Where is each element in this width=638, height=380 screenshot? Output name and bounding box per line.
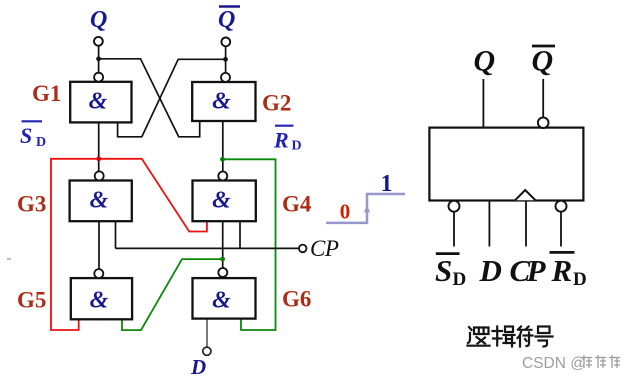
char hao	[536, 327, 553, 347]
svg-text:1: 1	[381, 171, 393, 197]
svg-text:Q: Q	[218, 7, 235, 33]
svg-text:Q: Q	[474, 45, 496, 78]
bubble G3 output	[95, 171, 104, 180]
bubble G5 output	[94, 269, 103, 278]
svg-text:&: &	[212, 89, 231, 115]
junction red on S-bar net	[96, 156, 101, 161]
svg-text:R: R	[273, 127, 289, 152]
label Q-bar (symbol)	[532, 45, 556, 78]
bubble G1 output	[94, 73, 103, 82]
svg-text:CSDN @: CSDN @	[522, 355, 586, 372]
junction green on R-bar net	[220, 157, 225, 162]
wire Q vertical	[98, 46, 100, 73]
wire R-bar net: G2 bottom to G4 bubble	[222, 121, 224, 172]
terminal Q	[94, 37, 103, 46]
terminal D	[203, 347, 211, 355]
wire cross-couple Q to G2 input	[99, 59, 200, 137]
svg-text:&: &	[212, 288, 231, 314]
svg-text:&: &	[212, 188, 231, 214]
node Q label	[90, 7, 107, 33]
svg-text:CP: CP	[310, 236, 339, 261]
nand gate G1 box	[70, 82, 131, 123]
char ji	[493, 327, 515, 347]
wire G4 middle leg down to G6 bubble	[222, 221, 224, 268]
char luo	[468, 327, 490, 346]
pin Q	[482, 79, 484, 128]
bubble G4 output	[218, 172, 227, 181]
label S_D bar (blue)	[20, 121, 46, 150]
label R_D bar (symbol)	[550, 252, 587, 290]
terminal CP	[299, 245, 307, 253]
svg-text:D: D	[453, 269, 467, 290]
junction on Q-bar line	[223, 57, 228, 62]
svg-text:Q: Q	[532, 45, 554, 78]
svg-text:D: D	[573, 269, 587, 290]
svg-text:&: &	[90, 288, 109, 314]
watermark CJK name strokes	[581, 355, 620, 368]
pin D	[488, 201, 490, 247]
svg-text:G3: G3	[17, 192, 46, 217]
pin CP with edge triangle	[525, 201, 527, 247]
wire G3 right leg to CP rail	[115, 221, 117, 248]
wire cross-couple Q-bar to G1 input	[118, 59, 226, 137]
wire red: S-bar to G5 input (left loop)	[51, 159, 99, 330]
nand gate G3 box	[70, 181, 132, 222]
waveform CP edge	[326, 194, 405, 223]
svg-text:Q: Q	[90, 7, 107, 33]
wire D input to G6	[206, 319, 208, 347]
svg-text:0: 0	[340, 200, 351, 224]
svg-text:S: S	[435, 253, 452, 288]
svg-text:D: D	[36, 135, 46, 150]
pin R_D bar with bubble	[556, 201, 567, 212]
svg-text:D: D	[292, 139, 302, 154]
pin Q-bar with bubble	[542, 79, 544, 118]
wire CP rail	[116, 247, 299, 249]
wire green: G6 output to G5 input (diagonal)	[122, 259, 223, 330]
nand gate G5 box	[71, 278, 132, 319]
wire S-bar net: G1 bottom to G3 bubble	[98, 122, 100, 171]
wire G3 output leg down to G5 bubble	[98, 221, 100, 269]
nand gate G4 box	[193, 181, 256, 222]
svg-text:G5: G5	[17, 288, 46, 313]
svg-text:CP: CP	[510, 253, 547, 288]
bubble G2 output	[221, 73, 230, 82]
svg-text:D: D	[190, 355, 206, 379]
svg-text:R: R	[551, 253, 573, 288]
bubble G6 output	[218, 268, 227, 277]
node Q-bar label	[218, 7, 240, 34]
char fu	[518, 327, 533, 347]
svg-text:D: D	[479, 253, 502, 288]
caption "logic symbol" (CJK drawn strokes)	[468, 327, 553, 347]
svg-text:&: &	[89, 89, 108, 115]
nand gate G6 box	[193, 278, 256, 319]
wire G4 right leg to CP rail	[239, 221, 241, 248]
svg-text:S: S	[20, 123, 32, 148]
wire green: R-bar to G6 input (right loop)	[223, 159, 276, 330]
junction green on G6 output net	[220, 257, 225, 262]
svg-text:G2: G2	[262, 91, 291, 116]
svg-text:G1: G1	[32, 81, 61, 106]
logic symbol body U1	[429, 128, 583, 201]
wire red: S-bar to G4 input (diagonal)	[99, 159, 207, 232]
svg-text:G4: G4	[282, 192, 312, 217]
junction on Q line	[96, 56, 101, 61]
stray mark	[7, 258, 11, 260]
label R_D bar (blue)	[273, 126, 302, 154]
nand gate G2 box	[192, 82, 255, 121]
wire Q-bar vertical	[225, 47, 227, 73]
label S_D bar (symbol)	[435, 253, 466, 290]
svg-text:&: &	[90, 188, 109, 214]
terminal Q-bar	[221, 38, 230, 47]
svg-text:G6: G6	[282, 287, 311, 312]
pin S_D bar with bubble	[449, 201, 460, 212]
